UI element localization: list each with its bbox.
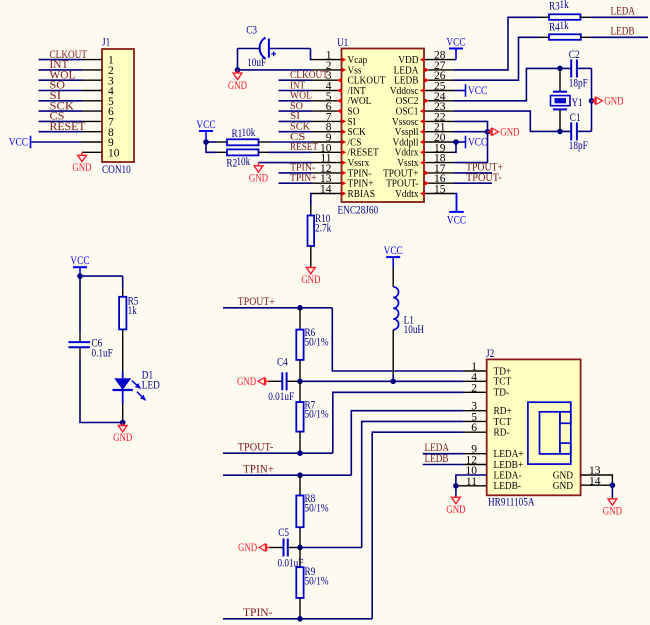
svg-text:VCC: VCC bbox=[446, 36, 465, 48]
svg-text:VCC: VCC bbox=[384, 245, 403, 257]
svg-text:18pF: 18pF bbox=[569, 78, 588, 90]
svg-text:GND: GND bbox=[603, 506, 622, 518]
svg-text:HR911105A: HR911105A bbox=[488, 496, 535, 508]
svg-text:0.01uF: 0.01uF bbox=[268, 391, 294, 403]
svg-text:GND: GND bbox=[72, 162, 91, 174]
svg-text:10k: 10k bbox=[236, 156, 250, 168]
svg-text:Vddtx: Vddtx bbox=[395, 188, 419, 200]
svg-text:LED: LED bbox=[142, 380, 160, 392]
svg-text:RD-: RD- bbox=[494, 427, 510, 439]
svg-text:C5: C5 bbox=[278, 527, 289, 539]
svg-text:GND: GND bbox=[301, 274, 320, 286]
svg-text:RESET: RESET bbox=[290, 142, 319, 153]
svg-text:VCC: VCC bbox=[9, 137, 28, 149]
svg-text:50/1%: 50/1% bbox=[305, 409, 329, 421]
svg-text:ENC28J60: ENC28J60 bbox=[338, 205, 379, 217]
svg-text:C2: C2 bbox=[569, 49, 580, 61]
svg-text:GND: GND bbox=[604, 95, 623, 107]
svg-text:VCC: VCC bbox=[70, 255, 89, 267]
svg-text:1k: 1k bbox=[128, 305, 137, 317]
svg-text:VCC: VCC bbox=[196, 119, 215, 131]
svg-text:C3: C3 bbox=[246, 25, 257, 37]
svg-text:R3: R3 bbox=[549, 1, 560, 13]
svg-text:10k: 10k bbox=[242, 127, 256, 139]
svg-text:R4: R4 bbox=[549, 21, 560, 33]
svg-text:50/1%: 50/1% bbox=[305, 336, 329, 348]
svg-text:10: 10 bbox=[108, 147, 120, 159]
svg-text:1k: 1k bbox=[560, 0, 569, 11]
svg-text:GND: GND bbox=[238, 542, 257, 554]
svg-text:VCC: VCC bbox=[468, 137, 487, 149]
svg-text:10uF: 10uF bbox=[247, 57, 266, 69]
svg-text:15: 15 bbox=[434, 184, 446, 196]
svg-text:CON10: CON10 bbox=[102, 164, 131, 176]
svg-text:C4: C4 bbox=[277, 356, 288, 368]
svg-text:RESET: RESET bbox=[50, 119, 87, 133]
svg-text:GND: GND bbox=[249, 173, 268, 185]
svg-text:U1: U1 bbox=[337, 37, 348, 49]
svg-text:RBIAS: RBIAS bbox=[348, 188, 376, 200]
svg-text:50/1%: 50/1% bbox=[305, 502, 329, 514]
svg-text:LEDA: LEDA bbox=[611, 3, 636, 17]
svg-text:LEDB: LEDB bbox=[611, 23, 635, 37]
svg-text:10uH: 10uH bbox=[404, 324, 425, 336]
svg-text:GND: GND bbox=[113, 432, 132, 444]
svg-text:2.7k: 2.7k bbox=[315, 223, 331, 235]
svg-text:C1: C1 bbox=[570, 112, 581, 124]
svg-text:LEDB-: LEDB- bbox=[494, 480, 522, 492]
svg-text:TPOUT-: TPOUT- bbox=[466, 170, 502, 184]
svg-text:J1: J1 bbox=[102, 37, 110, 49]
svg-text:TPIN+: TPIN+ bbox=[290, 173, 317, 184]
svg-text:50/1%: 50/1% bbox=[305, 576, 329, 588]
svg-text:14: 14 bbox=[320, 184, 332, 196]
svg-text:2: 2 bbox=[471, 382, 477, 394]
svg-text:GND: GND bbox=[228, 80, 247, 92]
svg-text:GND: GND bbox=[500, 126, 519, 138]
svg-text:LEDB: LEDB bbox=[425, 451, 449, 465]
svg-text:6: 6 bbox=[471, 422, 477, 434]
svg-text:18pF: 18pF bbox=[569, 140, 588, 152]
svg-text:Y1: Y1 bbox=[572, 97, 583, 109]
svg-text:TPIN-: TPIN- bbox=[243, 605, 273, 619]
svg-text:TD-: TD- bbox=[494, 387, 510, 399]
svg-text:1k: 1k bbox=[560, 20, 569, 32]
svg-text:GND: GND bbox=[237, 376, 256, 388]
svg-text:TPIN+: TPIN+ bbox=[243, 462, 274, 476]
svg-text:GND: GND bbox=[446, 504, 465, 516]
svg-text:VCC: VCC bbox=[468, 85, 487, 97]
svg-text:TPOUT+: TPOUT+ bbox=[238, 294, 275, 308]
svg-text:0.1uF: 0.1uF bbox=[92, 348, 113, 360]
svg-text:J2: J2 bbox=[486, 348, 494, 360]
svg-text:VCC: VCC bbox=[447, 214, 466, 226]
svg-text:GND: GND bbox=[553, 480, 573, 492]
svg-text:TPOUT-: TPOUT- bbox=[238, 440, 274, 454]
